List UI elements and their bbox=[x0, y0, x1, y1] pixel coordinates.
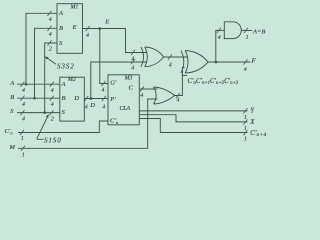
svg-text:Y: Y bbox=[250, 108, 255, 115]
svg-text:X: X bbox=[249, 119, 255, 126]
svg-text:E: E bbox=[72, 24, 77, 31]
svg-text:P′: P′ bbox=[109, 96, 116, 103]
svg-text:A: A bbox=[9, 80, 14, 87]
svg-text:C′nC′n+1C′n+2C′n+3: C′nC′n+1C′n+2C′n+3 bbox=[188, 78, 239, 86]
svg-text:4: 4 bbox=[49, 32, 52, 38]
svg-text:M2: M2 bbox=[67, 77, 76, 83]
svg-text:4: 4 bbox=[169, 63, 172, 69]
svg-text:1: 1 bbox=[21, 136, 24, 142]
svg-text:1: 1 bbox=[246, 35, 249, 41]
svg-text:4: 4 bbox=[22, 117, 25, 123]
svg-text:4: 4 bbox=[244, 67, 247, 73]
svg-text:4: 4 bbox=[22, 102, 25, 108]
svg-text:4: 4 bbox=[102, 105, 105, 111]
svg-text:S: S bbox=[62, 109, 66, 116]
svg-text:B: B bbox=[10, 94, 14, 101]
svg-text:M3: M3 bbox=[124, 76, 133, 82]
svg-text:A: A bbox=[58, 10, 63, 17]
svg-text:4: 4 bbox=[85, 105, 88, 111]
svg-text:1: 1 bbox=[244, 126, 247, 132]
svg-text:C′n: C′n bbox=[110, 118, 119, 125]
svg-text:S3S2: S3S2 bbox=[57, 62, 75, 70]
svg-text:4: 4 bbox=[51, 88, 54, 94]
svg-text:4: 4 bbox=[86, 33, 89, 39]
svg-text:M1: M1 bbox=[70, 4, 79, 10]
svg-text:E: E bbox=[104, 18, 109, 25]
svg-text:4: 4 bbox=[218, 35, 221, 41]
svg-text:S1S0: S1S0 bbox=[44, 136, 62, 144]
svg-text:4: 4 bbox=[51, 102, 54, 108]
svg-text:C′n: C′n bbox=[5, 128, 14, 135]
svg-text:A=B: A=B bbox=[252, 28, 265, 35]
svg-text:2: 2 bbox=[49, 47, 52, 53]
svg-text:B: B bbox=[59, 25, 63, 32]
svg-text:D: D bbox=[89, 102, 95, 109]
svg-text:D: D bbox=[73, 95, 79, 102]
svg-text:C: C bbox=[129, 85, 134, 92]
svg-text:4: 4 bbox=[49, 17, 52, 23]
svg-text:4: 4 bbox=[140, 93, 143, 99]
svg-text:1: 1 bbox=[22, 153, 25, 159]
svg-text:1: 1 bbox=[244, 137, 247, 143]
svg-text:G′: G′ bbox=[110, 80, 117, 87]
svg-text:C′n+4: C′n+4 bbox=[250, 129, 266, 138]
svg-text:4: 4 bbox=[177, 98, 180, 104]
svg-text:1: 1 bbox=[244, 115, 247, 121]
svg-text:A: A bbox=[61, 81, 66, 88]
svg-text:F: F bbox=[251, 58, 257, 65]
svg-text:M: M bbox=[9, 144, 16, 151]
svg-text:4: 4 bbox=[102, 88, 105, 94]
svg-text:CLA: CLA bbox=[120, 105, 131, 112]
svg-text:4: 4 bbox=[131, 66, 134, 72]
svg-text:B: B bbox=[62, 95, 66, 102]
svg-text:S: S bbox=[10, 108, 14, 115]
svg-text:S: S bbox=[59, 40, 63, 47]
svg-text:4: 4 bbox=[22, 88, 25, 94]
svg-text:4: 4 bbox=[131, 57, 134, 63]
svg-text:2: 2 bbox=[51, 117, 54, 123]
